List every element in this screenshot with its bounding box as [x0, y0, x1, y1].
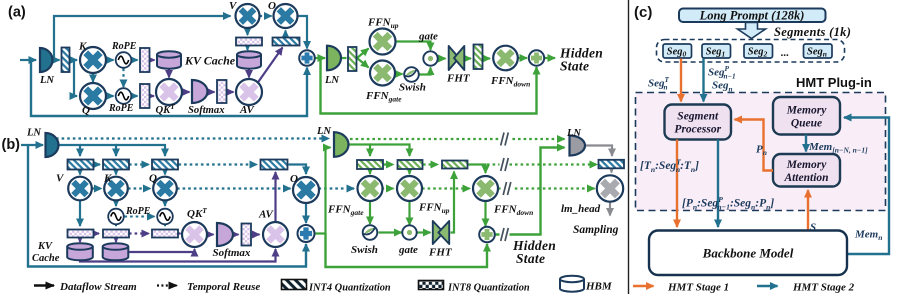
- svg-text:Long Prompt (128k): Long Prompt (128k): [699, 9, 805, 23]
- svg-text:Segment: Segment: [677, 111, 719, 123]
- svg-text:(a): (a): [8, 5, 26, 21]
- svg-text:RoPE: RoPE: [108, 103, 134, 114]
- svg-text:HMT Stage 1: HMT Stage 1: [667, 282, 729, 294]
- svg-text:Processor: Processor: [674, 124, 721, 136]
- svg-text:Sampling: Sampling: [573, 224, 619, 236]
- svg-text:KV: KV: [37, 241, 53, 252]
- svg-text:Softmax: Softmax: [213, 247, 251, 259]
- svg-text:HBM: HBM: [585, 281, 613, 293]
- svg-text:FHT: FHT: [428, 247, 453, 259]
- svg-text:Memory: Memory: [786, 104, 828, 116]
- svg-text:FHT: FHT: [446, 73, 471, 85]
- svg-text:gate: gate: [418, 31, 438, 43]
- svg-text:...: ...: [781, 47, 790, 59]
- svg-text:INT4 Quantization: INT4 Quantization: [308, 283, 391, 294]
- svg-text:LN: LN: [324, 75, 339, 86]
- svg-text:LN: LN: [316, 126, 331, 137]
- svg-text:Attention: Attention: [783, 172, 828, 184]
- svg-text:K: K: [78, 41, 87, 53]
- svg-text:LN: LN: [566, 128, 581, 139]
- svg-text:Memory: Memory: [786, 159, 828, 171]
- svg-text:AV: AV: [239, 104, 256, 116]
- svg-text:Dataflow Stream: Dataflow Stream: [59, 281, 137, 293]
- svg-text:Swish: Swish: [351, 244, 378, 256]
- svg-text:Q: Q: [82, 105, 90, 117]
- svg-text:SegTn: SegTn: [648, 75, 670, 91]
- svg-text:O: O: [290, 173, 298, 185]
- svg-text:HMT Plug-in: HMT Plug-in: [796, 75, 872, 90]
- svg-text:(b): (b): [2, 137, 21, 153]
- svg-text:Softmax: Softmax: [188, 105, 225, 116]
- svg-text:Temporal Reuse: Temporal Reuse: [187, 281, 260, 293]
- svg-text:AV: AV: [258, 209, 275, 221]
- svg-text:INT8 Quantization: INT8 Quantization: [447, 283, 530, 294]
- svg-text:Segments (1k): Segments (1k): [774, 25, 851, 39]
- svg-text:Swish: Swish: [399, 82, 426, 94]
- svg-text:Q: Q: [149, 173, 157, 185]
- svg-text:Memn: Memn: [854, 229, 882, 243]
- svg-text:RoPE: RoPE: [125, 206, 151, 217]
- svg-text:lm_head: lm_head: [561, 203, 601, 215]
- svg-text:O: O: [268, 0, 276, 12]
- svg-text:Queue: Queue: [791, 117, 822, 129]
- svg-text:LN: LN: [26, 128, 41, 139]
- svg-text:HMT Stage 2: HMT Stage 2: [792, 282, 855, 294]
- svg-text:KV Cache: KV Cache: [184, 54, 236, 68]
- svg-text:Cache: Cache: [32, 253, 60, 264]
- svg-text:(c): (c): [634, 4, 652, 21]
- svg-text:K: K: [103, 173, 112, 185]
- svg-text:LN: LN: [39, 75, 54, 86]
- svg-text:State: State: [516, 251, 545, 266]
- svg-text:State: State: [560, 59, 589, 74]
- svg-text:gate: gate: [398, 244, 418, 256]
- svg-text:RoPE: RoPE: [111, 41, 137, 52]
- svg-text:[Tn:SegTn:Tn]: [Tn:SegTn:Tn]: [640, 157, 699, 174]
- svg-text:Backbone Model: Backbone Model: [702, 246, 794, 261]
